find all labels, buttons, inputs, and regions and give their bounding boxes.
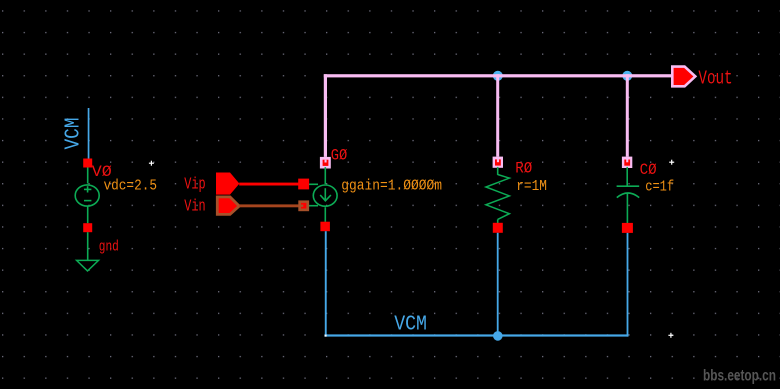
node marker cross right top	[669, 160, 674, 165]
svg-text:GØ: GØ	[331, 147, 348, 165]
svg-text:RØ: RØ	[515, 160, 532, 178]
voltage source V0 body	[75, 185, 99, 206]
vccs G0 bottom pin square	[320, 222, 330, 232]
wire pink vertical at G0	[324, 74, 327, 157]
svg-text:c=1f: c=1f	[645, 178, 674, 195]
vccs G0 plus control pin square (Vip)	[298, 179, 309, 190]
svg-text:gnd: gnd	[99, 238, 119, 255]
wire C0 bottom	[627, 193, 629, 223]
wire blue vertical from R0	[497, 233, 499, 335]
svg-text:Vip: Vip	[184, 176, 205, 195]
node marker cross left	[149, 161, 154, 166]
junction at R0 bottom	[493, 331, 503, 341]
wire R0 bottom	[497, 219, 499, 223]
svg-text:VCM: VCM	[63, 118, 86, 150]
capacitor C0 top pin square	[622, 157, 632, 168]
wire blue bottom rail	[324, 334, 628, 336]
port pin Vout	[672, 67, 695, 87]
svg-text:Vout: Vout	[698, 67, 732, 89]
wire pink vertical at R0	[496, 74, 499, 156]
resistor R0 bottom pin square	[493, 223, 503, 233]
junction at R0 top	[493, 71, 503, 81]
svg-text:bbs.eetop.cn: bbs.eetop.cn	[703, 368, 776, 385]
voltage source V0 top pin square	[83, 159, 92, 168]
wire pink vertical at C0	[626, 74, 629, 156]
wire G0 top	[325, 167, 327, 184]
svg-text:ggain=1.ØØØØm: ggain=1.ØØØØm	[341, 178, 442, 195]
wire Vin to G0	[239, 204, 299, 207]
wire blue vertical from G0	[325, 231, 327, 336]
vccs G0 body	[309, 184, 337, 206]
wire G0 bottom	[325, 207, 327, 222]
port pin Vip	[216, 173, 239, 195]
wire Vip to G0	[239, 183, 299, 186]
wire R0 top	[497, 167, 499, 175]
wire V0 bottom	[87, 206, 89, 223]
wire blue vertical from C0	[627, 233, 629, 337]
junction at C0 top	[622, 71, 632, 81]
wire pink top rail	[324, 74, 672, 77]
resistor R0 top pin square	[493, 157, 503, 168]
wire net VCM stub at V0	[88, 108, 90, 159]
wire V0 to gnd	[87, 232, 89, 260]
voltage source V0 bottom pin square	[83, 223, 92, 232]
node marker cross right bottom	[668, 333, 673, 338]
capacitor C0 body	[617, 186, 640, 197]
svg-text:VCM: VCM	[394, 313, 427, 336]
ground gnd symbol	[77, 260, 99, 271]
vccs G0 top pin square	[320, 157, 331, 169]
wire corner highlight	[325, 335, 327, 337]
wire C0 top	[626, 167, 628, 186]
svg-text:Vin: Vin	[184, 198, 205, 217]
svg-text:CØ: CØ	[640, 161, 657, 179]
capacitor C0 bottom pin square	[622, 223, 633, 233]
resistor R0 body (zigzag)	[486, 175, 510, 220]
port pin Vin	[217, 197, 239, 215]
svg-text:r=1M: r=1M	[516, 178, 547, 195]
vccs G0 minus control pin square (Vin)	[298, 200, 309, 211]
wire V0 top	[87, 168, 89, 184]
svg-text:vdc=2.5: vdc=2.5	[104, 178, 158, 195]
